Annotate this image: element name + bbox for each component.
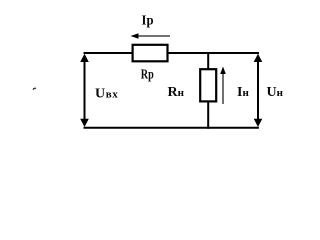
- wire: top-left segment from left node to Rp: [84, 52, 135, 54]
- current arrow Ip: [131, 33, 171, 39]
- resistor Rp: [133, 45, 168, 62]
- svg-text:Iр: Iр: [142, 14, 154, 29]
- current arrow Iн: [220, 67, 226, 105]
- wire: middle branch top: [207, 52, 209, 71]
- resistor Rн: [200, 69, 216, 101]
- svg-text:Uвх: Uвх: [95, 87, 118, 102]
- svg-text:Rр: Rр: [141, 68, 154, 83]
- stray speck mark: [33, 88, 37, 90]
- svg-text:Rн: Rн: [168, 85, 185, 100]
- voltage arrow Uвх (left wire, double-headed): [80, 54, 89, 127]
- voltage arrow Uн (right wire, double-headed): [254, 54, 263, 127]
- wire: bottom: [84, 127, 259, 129]
- svg-text:Uн: Uн: [267, 85, 284, 100]
- wire: top-right segment from Rp to right node: [168, 52, 259, 54]
- svg-text:Iн: Iн: [237, 85, 249, 100]
- wire: middle branch bottom: [207, 101, 209, 129]
